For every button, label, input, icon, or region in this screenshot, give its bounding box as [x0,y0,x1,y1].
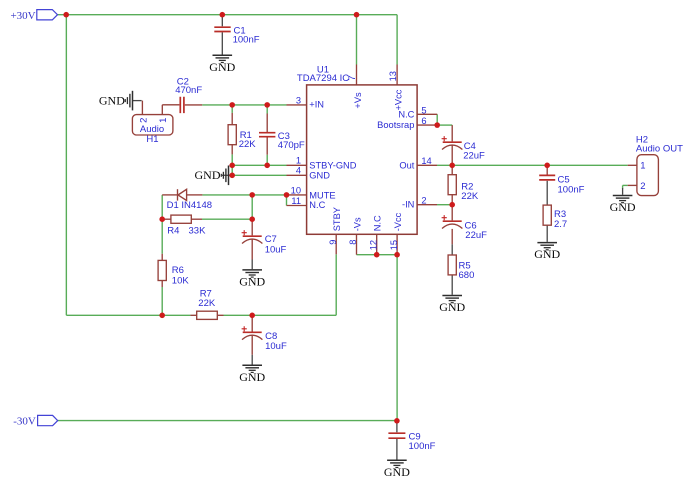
svg-text:5: 5 [421,105,426,115]
svg-text:4: 4 [296,166,301,176]
svg-text:Bootsrap: Bootsrap [377,120,414,130]
svg-text:+Vcc: +Vcc [394,89,404,110]
svg-text:Out: Out [399,161,414,171]
svg-text:R4: R4 [167,225,179,236]
svg-text:TDA7294 IC: TDA7294 IC [297,73,349,84]
svg-text:680: 680 [459,270,475,281]
svg-text:22uF: 22uF [463,151,485,162]
svg-text:-Vs: -Vs [352,217,362,231]
svg-text:-IN: -IN [402,200,414,210]
svg-text:GND: GND [534,247,560,261]
svg-text:11: 11 [291,196,301,206]
svg-text:1: 1 [296,155,301,165]
svg-text:10K: 10K [172,276,190,287]
svg-text:-Vcc: -Vcc [393,212,403,231]
svg-text:GND: GND [384,465,410,479]
svg-text:33K: 33K [189,225,207,236]
svg-text:N.C: N.C [372,215,382,231]
svg-text:GND: GND [439,300,465,314]
svg-text:GND: GND [239,370,265,384]
svg-text:7: 7 [347,75,357,80]
svg-text:GND: GND [239,275,265,289]
svg-text:100nF: 100nF [409,441,436,452]
svg-text:14: 14 [421,156,431,166]
svg-text:8: 8 [348,240,358,245]
svg-text:2: 2 [640,181,645,192]
svg-text:H1: H1 [146,134,158,145]
svg-text:1: 1 [158,118,169,123]
svg-text:GND: GND [309,171,330,181]
svg-text:100nF: 100nF [558,184,585,195]
svg-text:13: 13 [388,71,398,81]
svg-text:+30V: +30V [10,10,35,22]
svg-text:9: 9 [328,240,338,245]
svg-text:22K: 22K [239,139,257,150]
svg-text:2: 2 [421,196,426,206]
svg-text:R6: R6 [172,265,184,276]
svg-text:10: 10 [291,185,301,195]
svg-text:1: 1 [640,160,645,171]
svg-text:R3: R3 [554,209,566,220]
svg-text:10uF: 10uF [265,341,287,352]
svg-text:10uF: 10uF [265,245,287,256]
svg-text:STBY-GND: STBY-GND [309,161,356,171]
svg-text:GND: GND [209,60,235,74]
svg-text:470pF: 470pF [278,140,305,151]
svg-text:GND: GND [610,200,636,214]
svg-text:22K: 22K [198,298,216,309]
svg-text:C7: C7 [265,234,277,245]
svg-text:12: 12 [368,240,378,250]
svg-text:+IN: +IN [309,100,324,110]
svg-text:2: 2 [138,118,149,123]
svg-text:15: 15 [389,240,399,250]
svg-text:D1 IN4148: D1 IN4148 [167,200,212,211]
svg-text:+Vs: +Vs [353,92,363,109]
svg-text:Audio OUT: Audio OUT [636,144,683,155]
svg-text:3: 3 [296,95,301,105]
svg-text:STBY: STBY [332,207,342,231]
svg-text:22uF: 22uF [465,230,487,241]
svg-text:GND: GND [99,93,125,107]
svg-text:470nF: 470nF [175,85,202,96]
svg-text:N.C: N.C [309,200,325,210]
svg-text:100nF: 100nF [233,34,260,45]
svg-text:22K: 22K [461,191,479,202]
svg-text:GND: GND [195,168,221,182]
svg-text:-30V: -30V [13,415,36,427]
svg-text:2.7: 2.7 [554,219,567,230]
svg-text:6: 6 [421,116,426,126]
